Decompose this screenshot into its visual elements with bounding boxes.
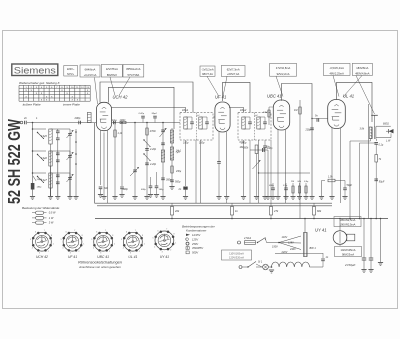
antenna coupling capacitor 2n: [24, 121, 26, 125]
svg-text:2×50µF: 2×50µF: [344, 263, 355, 267]
svg-text:10M: 10M: [263, 112, 267, 114]
svg-text:2-20p: 2-20p: [149, 148, 157, 151]
voltage callout box group 6 UF41b: [221, 66, 245, 77]
UF41 cathode capacitor: [217, 161, 221, 163]
voltage callout box group 2: [80, 65, 100, 77]
svg-text:8: 8: [112, 235, 113, 237]
svg-text:1: 1: [83, 244, 84, 246]
callout box rectifier bottom: [335, 247, 362, 257]
capacitor 1n mains: [322, 253, 324, 258]
svg-text:Wellenschalter gez. Stellung: Wellenschalter gez. Stellung K: [19, 81, 61, 85]
pilot lamp Si 1: [263, 264, 269, 270]
svg-text:7: 7: [105, 230, 106, 232]
svg-text:Kondensatoren: Kondensatoren: [186, 228, 207, 232]
band filter stage capacitors 13µ5: [57, 129, 59, 131]
output transformer primary coil: [371, 127, 372, 139]
band filter stage coil 13µ7: [33, 172, 47, 174]
antenna terminal: [20, 121, 23, 124]
svg-text:0,1µ: 0,1µ: [379, 144, 384, 147]
svg-text:0,3µ: 0,3µ: [304, 181, 309, 183]
svg-text:2: 2: [139, 251, 140, 253]
svg-text:8P5/GL2mA: 8P5/GL2mA: [126, 67, 140, 71]
svg-text:UL 41: UL 41: [128, 255, 137, 259]
svg-text:2n: 2n: [23, 116, 27, 120]
AF takeoff wire: [259, 172, 311, 174]
loudspeaker wire top: [376, 125, 391, 127]
svg-text:480V/4,8mA: 480V/4,8mA: [355, 71, 370, 75]
UL41 cathode resistor 1,5k: [328, 179, 335, 182]
band filter trimmer 13µ7: [69, 173, 71, 177]
wire to ground bottom right: [380, 219, 382, 263]
svg-text:12V/78mA: 12V/78mA: [106, 67, 118, 71]
oscillator switch chain: [146, 123, 148, 197]
svg-text:7: 7: [166, 229, 167, 231]
capacitor 50uF B+: [374, 178, 378, 180]
svg-text:185V/92,5mA: 185V/92,5mA: [340, 218, 356, 222]
svg-text:2-20p: 2-20p: [149, 163, 157, 166]
UCH42 cathode wire: [100, 131, 102, 186]
svg-text:27k: 27k: [273, 209, 279, 213]
capacitor 300p osc tank: [161, 177, 165, 179]
svg-text:UF 41: UF 41: [68, 255, 77, 259]
svg-text:33µ4: 33µ4: [152, 112, 158, 115]
svg-text:6: 6: [66, 232, 67, 234]
screen wire: [359, 143, 361, 219]
capacitor 0,1u grid: [113, 121, 115, 125]
mains terminal b: [239, 266, 242, 269]
svg-text:500p: 500p: [141, 189, 147, 191]
svg-text:92V/2,2mA: 92V/2,2mA: [277, 72, 290, 76]
UCH42 anode wire to IF1: [112, 108, 186, 113]
svg-text:1: 1: [175, 242, 176, 244]
UL41 cathode capacitor 50uF: [344, 181, 346, 189]
svg-text:2,5/1A: 2,5/1A: [243, 237, 252, 240]
voltage callout box group 4: [123, 65, 144, 78]
svg-text:8: 8: [82, 235, 83, 237]
band filter stage coil 13µ5: [33, 128, 47, 130]
band filter trimmer 13µ5: [69, 129, 71, 133]
svg-text:6: 6: [126, 232, 127, 234]
bus resistor 20k: [171, 203, 173, 207]
svg-text:+0,2/17mA: +0,2/17mA: [84, 73, 97, 77]
coupling capacitor 5n: [312, 118, 328, 120]
grid line wire UCH42 to osc: [112, 122, 181, 124]
IF2 core dashed separator: [253, 113, 255, 141]
detector resistor 500k volume pot: [255, 145, 258, 154]
voltage callout box group 8 UL41: [323, 63, 350, 75]
svg-text:Si 1: Si 1: [258, 261, 263, 264]
svg-text:5: 5: [121, 239, 122, 241]
resistor legend 3W: [32, 222, 36, 224]
UCH42 heater pin wire: [103, 133, 105, 197]
oscillator trimmer 2-20p a: [145, 148, 149, 150]
svg-text:100p: 100p: [241, 142, 247, 145]
svg-text:5: 5: [61, 239, 62, 241]
svg-text:1: 1: [114, 244, 115, 246]
IF2 primary coil: [242, 117, 245, 129]
UCH42 screen wire: [107, 131, 109, 204]
resistor 1M grid UL41: [299, 100, 301, 219]
svg-text:Anschlüsse von unten gesehen: Anschlüsse von unten gesehen: [78, 265, 121, 269]
svg-text:8: 8: [174, 234, 175, 236]
UY41 cathode wire: [339, 244, 341, 246]
svg-text:100p: 100p: [123, 188, 129, 191]
svg-text:4: 4: [62, 248, 63, 250]
input coil on grid line: [87, 113, 91, 123]
svg-text:125V: 125V: [192, 237, 198, 241]
svg-text:UF 41: UF 41: [215, 95, 226, 100]
tube UF41: [215, 102, 230, 132]
svg-text:8: 8: [51, 235, 52, 237]
oscillator rail wire 3: [134, 123, 136, 197]
voltage callout box group 7 UBC41: [270, 63, 297, 76]
svg-text:Siemens: Siemens: [14, 65, 56, 75]
capacitor 300p AF: [272, 183, 274, 188]
mains voltage box: [222, 250, 252, 260]
band filter stage capacitors 13µ7: [57, 173, 59, 175]
svg-text:52 SH 522 GW: 52 SH 522 GW: [4, 119, 24, 204]
voltage callout box group 9 UL41 b: [352, 63, 372, 75]
svg-text:47V/10,8mA: 47V/10,8mA: [276, 66, 291, 70]
detector output wire: [250, 149, 268, 151]
leader line to output T point: [356, 76, 375, 115]
tube UBC41: [273, 100, 289, 130]
tube socket UCH42: [33, 232, 52, 251]
detector load wire: [267, 150, 269, 196]
svg-text:4: 4: [32, 248, 33, 250]
svg-text:110V/165mA: 110V/165mA: [229, 251, 244, 255]
mains voltage selector plate: [304, 233, 308, 257]
svg-text:2: 2: [170, 250, 171, 252]
voltage callout box group 1: [64, 66, 78, 77]
capacitor legend row 12/15V: [186, 234, 190, 236]
svg-text:0,5 W: 0,5 W: [49, 211, 56, 215]
capacitor 500p osc foot: [155, 185, 159, 187]
bus resistor 1M b: [270, 203, 272, 207]
tube socket UY41: [155, 231, 174, 250]
svg-text:6: 6: [35, 232, 36, 234]
IF transformer 10u1 shield box: [180, 113, 213, 141]
oscillator tank chain: [162, 123, 164, 197]
svg-text:6H4/6mA: 6H4/6mA: [85, 67, 96, 71]
loudspeaker diode symbol: [389, 129, 394, 133]
UBC41 pin wires: [277, 130, 279, 196]
oscillator padder trimmer: [130, 167, 139, 176]
junction dots on supply bus: [171, 218, 173, 220]
svg-text:4: 4: [93, 248, 94, 250]
filter electrolytic capacitor b: [370, 219, 372, 258]
svg-text:500V: 500V: [192, 251, 198, 255]
svg-text:UCH 42: UCH 42: [36, 255, 48, 259]
svg-text:innere Platte: innere Platte: [63, 102, 80, 106]
tube UY41 rectifier: [333, 231, 347, 245]
B+ feed T bar: [371, 114, 378, 116]
rail choke coil: [31, 183, 35, 190]
UCH42 top coupling wire to IF1: [100, 82, 193, 113]
svg-text:7: 7: [44, 230, 45, 232]
svg-text:125V: 125V: [288, 241, 294, 244]
svg-text:5: 5: [30, 239, 31, 241]
capacitor 140u osc foot: [149, 185, 153, 187]
svg-text:100p: 100p: [183, 142, 189, 145]
capacitor 200p tone: [310, 127, 314, 129]
svg-text:270Ω: 270Ω: [149, 130, 156, 133]
loudspeaker wire bottom: [376, 137, 391, 139]
svg-text:500k: 500k: [243, 147, 249, 150]
svg-text:300p: 300p: [269, 185, 275, 187]
UCH42 cathode capacitor 32k: [99, 186, 103, 188]
resistor legend 1W: [32, 217, 36, 219]
tube UCH42: [96, 102, 111, 130]
svg-text:89V/9V2: 89V/9V2: [107, 73, 118, 77]
IF2 secondary capacitor: [263, 121, 267, 123]
svg-text:200p: 200p: [305, 129, 312, 132]
wire selector to heater: [301, 253, 323, 255]
IF1 primary capacitor 100p: [190, 121, 194, 123]
svg-text:62V/7,3mA: 62V/7,3mA: [227, 67, 240, 71]
capacitor 20u4 on grid line: [154, 118, 156, 123]
svg-text:102V/105mA: 102V/105mA: [341, 248, 356, 252]
resistor 100 ohm grid: [120, 121, 126, 123]
selector wire to bus: [304, 219, 306, 233]
svg-text:7: 7: [135, 230, 136, 232]
svg-text:20k: 20k: [174, 209, 180, 213]
AF component 1M: [292, 183, 294, 196]
UY41 anode wire: [339, 219, 341, 231]
svg-text:60k: 60k: [317, 209, 322, 213]
detector wire: [270, 140, 272, 203]
speaker return wires: [370, 139, 372, 141]
svg-text:-1V/5,2mA: -1V/5,2mA: [201, 68, 214, 72]
svg-text:13µ5: 13µ5: [41, 134, 47, 138]
svg-text:600Ω: 600Ω: [383, 123, 389, 126]
AF component 50k: [299, 183, 301, 196]
bus resistor 60k: [313, 203, 315, 207]
UF41 pin wires: [218, 132, 220, 161]
svg-text:äußere Platte: äußere Platte: [23, 102, 41, 106]
svg-text:13µ7: 13µ7: [41, 178, 47, 182]
antenna wire: [27, 122, 97, 124]
svg-text:2: 2: [78, 251, 79, 253]
svg-text:UCH 42: UCH 42: [113, 95, 129, 100]
svg-text:-0,5V/0,4mA: -0,5V/0,4mA: [329, 66, 344, 70]
svg-text:34µ1: 34µ1: [176, 150, 182, 153]
svg-text:50µF: 50µF: [379, 181, 385, 184]
cathode wire UL41: [321, 181, 323, 197]
svg-text:0,1µ: 0,1µ: [283, 185, 288, 187]
svg-text:1,5k: 1,5k: [328, 176, 333, 179]
UL41 top coupling wire to output transformer: [337, 82, 373, 122]
svg-text:8: 8: [142, 235, 143, 237]
heater dropper barretter coil: [272, 262, 310, 267]
svg-text:3: 3: [162, 251, 163, 253]
svg-text:100p: 100p: [267, 147, 273, 150]
svg-text:7: 7: [74, 230, 75, 232]
svg-text:1M: 1M: [291, 181, 294, 183]
IF transformer 10u2 shield box: [238, 113, 271, 141]
svg-text:BW 1: BW 1: [310, 246, 317, 250]
svg-text:Röhrensockelschaltungen: Röhrensockelschaltungen: [78, 260, 122, 264]
band filter trimmer 13µ6: [69, 151, 71, 155]
svg-text:140µ: 140µ: [159, 188, 165, 191]
capacitor 100p osc: [120, 186, 124, 188]
UF41 grid stopper: [213, 116, 215, 118]
supply bus wire: [95, 218, 388, 220]
detector capacitor 100p: [264, 140, 266, 146]
svg-text:UY 41: UY 41: [315, 228, 327, 233]
capacitor legend row 250V: [186, 242, 189, 245]
UBC41 grid resistor 10M: [268, 107, 270, 125]
tube socket UBC41: [94, 232, 113, 251]
leader line to UL41 b: [343, 76, 362, 98]
svg-text:5: 5: [153, 238, 154, 240]
svg-text:5: 5: [91, 239, 92, 241]
heater bus wire: [97, 205, 332, 207]
mains switch b: [242, 266, 248, 268]
AF component 0,3µ: [305, 183, 307, 196]
svg-text:3 W: 3 W: [49, 221, 54, 225]
capacitor legend row 500V: [186, 251, 189, 254]
svg-text:50µF: 50µF: [347, 184, 353, 187]
svg-text:1: 1: [53, 244, 54, 246]
output transformer core: [374, 127, 376, 140]
svg-text:2: 2: [48, 251, 49, 253]
oscillator coil chain: [171, 128, 173, 186]
svg-text:+60V/7,4A: +60V/7,4A: [227, 72, 239, 76]
IF1 core dashed separator: [195, 113, 197, 141]
svg-text:2: 2: [109, 251, 110, 253]
leader line to UBC41: [276, 76, 283, 96]
mains fuse 2,5/1A: [245, 241, 256, 245]
leader line from box2: [95, 78, 98, 105]
resistor 7k output: [375, 155, 378, 163]
svg-text:1: 1: [144, 244, 145, 246]
svg-text:13µ6: 13µ6: [41, 156, 47, 160]
IF1 secondary coil: [199, 117, 202, 129]
svg-text:48V/2,25mA: 48V/2,25mA: [330, 71, 345, 75]
voltage callout box group 3: [101, 65, 122, 78]
svg-text:57V/7V8A: 57V/7V8A: [128, 73, 140, 77]
svg-text:184V/8mA: 184V/8mA: [356, 66, 368, 70]
oscillator rail wire 1: [114, 123, 116, 197]
svg-text:6: 6: [96, 232, 97, 234]
voltage callout box group 5 UF41: [200, 66, 215, 76]
svg-text:190V/92,5mA: 190V/92,5mA: [340, 222, 356, 226]
svg-text:UL 41: UL 41: [343, 94, 354, 99]
IF2 secondary coil: [257, 117, 260, 129]
svg-text:2-20µ: 2-20µ: [138, 113, 145, 115]
IF1 secondary capacitor 100p: [205, 121, 209, 123]
svg-text:0,1µ: 0,1µ: [112, 119, 117, 122]
svg-text:3,9k: 3,9k: [360, 128, 365, 131]
bus resistor 27k: [231, 203, 233, 207]
svg-text:UY 41: UY 41: [160, 255, 169, 259]
svg-text:1M: 1M: [294, 109, 297, 112]
svg-text:4: 4: [154, 246, 155, 248]
oscillator rail wire 2: [121, 123, 123, 187]
svg-text:120V/320mA: 120V/320mA: [229, 256, 244, 260]
svg-text:Bedeutung der Widerstände: Bedeutung der Widerstände: [22, 206, 60, 210]
leader line to UCH42: [110, 77, 115, 96]
svg-text:6: 6: [158, 230, 159, 232]
svg-text:98V/7,4A: 98V/7,4A: [202, 72, 213, 76]
filter electrolytic capacitor a: [363, 219, 365, 258]
band filter ground symbols: [30, 196, 35, 198]
wave-switch table: [19, 84, 90, 86]
UCH42 top coupling wire to oscillator coil: [109, 87, 175, 129]
ground at barretter: [271, 266, 273, 268]
band filter coupling wire: [75, 129, 77, 196]
IF2 primary capacitor: [248, 121, 252, 123]
svg-text:100p: 100p: [199, 142, 205, 145]
svg-text:UBC 41: UBC 41: [267, 94, 282, 99]
IF1 primary coil: [184, 117, 187, 129]
IF2 wires down: [243, 140, 245, 196]
mains selector taps: [267, 242, 280, 244]
svg-text:220V~: 220V~: [67, 67, 75, 71]
mains terminal a: [238, 241, 241, 244]
svg-text:140p: 140p: [37, 186, 43, 189]
tube socket UL41: [123, 232, 142, 251]
callout box rectifier top: [334, 217, 361, 227]
leader line to UF41 b: [223, 76, 227, 96]
secondary wire a: [349, 141, 351, 219]
IF1 wires down: [185, 140, 187, 186]
svg-text:100Ω: 100Ω: [120, 119, 126, 122]
band filter input rail wire: [32, 123, 34, 197]
UL41 pin wires: [331, 128, 333, 196]
svg-text:150V: 150V: [272, 246, 278, 249]
svg-text:1 W: 1 W: [49, 216, 54, 220]
junction dots on antenna rail: [32, 128, 34, 130]
svg-text:M7V+: M7V+: [67, 72, 74, 76]
oscillator resistor 1k: [114, 130, 116, 137]
transformer secondary wires: [375, 139, 377, 141]
leader line to UL41: [333, 76, 339, 97]
resistor legend 0,5W: [32, 212, 36, 214]
capacitor 0,1u AF: [285, 183, 287, 188]
Siemens logo box: [12, 64, 58, 76]
svg-text:L.W: L.W: [386, 140, 391, 143]
UBC41 top coupling wire: [282, 84, 313, 197]
svg-text:4: 4: [123, 248, 124, 250]
leader line to UCH42 b: [119, 77, 130, 96]
barretter output wire: [310, 266, 324, 268]
svg-text:200p: 200p: [74, 116, 81, 120]
capacitor legend row 125V: [185, 238, 187, 240]
band filter stage coil 13µ6: [33, 150, 47, 152]
capacitor 200p antenna: [78, 121, 80, 125]
padder capacitor 2-20u on grid line: [142, 118, 144, 123]
svg-text:250V: 250V: [191, 242, 198, 246]
tube socket UF41: [63, 232, 82, 251]
svg-text:UBC 41: UBC 41: [97, 255, 109, 259]
svg-text:98V/23mA: 98V/23mA: [342, 252, 354, 256]
leader line to UF41: [207, 76, 219, 96]
UF41 top coupling wire to IF2: [223, 82, 251, 112]
UF41 anode wire to IF2: [229, 108, 244, 113]
mains switch: [258, 238, 266, 243]
capacitor legend row 350/385V: [186, 247, 189, 250]
svg-text:350/385V: 350/385V: [192, 246, 203, 250]
svg-text:13µ9: 13µ9: [37, 179, 43, 181]
capacitor 0,1u output: [374, 142, 378, 144]
svg-text:240V: 240V: [289, 248, 296, 251]
svg-text:110V: 110V: [282, 236, 288, 239]
svg-text:12/15V: 12/15V: [192, 233, 200, 237]
tube UL41: [328, 100, 346, 129]
svg-text:230µ: 230µ: [175, 171, 182, 173]
